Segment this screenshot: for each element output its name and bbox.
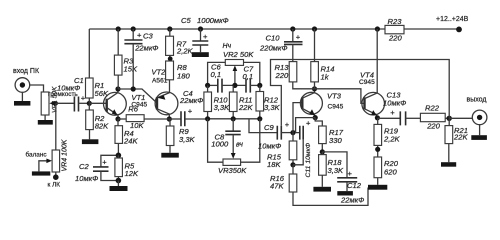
input jack connector: [15, 78, 30, 93]
wire top supply bus: [89, 28, 459, 30]
resistor R22 220: [420, 113, 445, 121]
svg-text:22K: 22K: [453, 133, 468, 142]
svg-text:VR350K: VR350K: [218, 166, 247, 175]
svg-text:15K: 15K: [124, 65, 138, 74]
wire VT1 collector to VT2 base: [118, 89, 157, 103]
svg-text:10мкФ: 10мкФ: [75, 174, 98, 183]
svg-text:+: +: [188, 107, 193, 116]
wire wiper node down to VR4: [55, 103, 57, 150]
ground below R21: [441, 162, 456, 167]
svg-text:C2: C2: [79, 162, 89, 171]
wire wiper node to C1: [56, 102, 74, 104]
svg-text:+12..+24В: +12..+24В: [436, 16, 469, 23]
svg-text:0,1: 0,1: [243, 72, 254, 81]
svg-text:+: +: [390, 108, 395, 117]
resistor R10 3,3K: [207, 85, 209, 92]
resistor R8 180: [166, 61, 174, 80]
resistor R3 15K: [117, 29, 119, 55]
node bus junction dots: [116, 26, 121, 31]
transistor VT1 C945: [104, 92, 127, 115]
ground below R2: [82, 139, 99, 144]
resistor R5 12K: [117, 155, 119, 158]
svg-text:10мкФ: 10мкФ: [383, 99, 406, 108]
svg-text:C9: C9: [264, 123, 274, 132]
svg-text:баланс: баланс: [26, 151, 48, 159]
wire VR4 wiper to ground: [39, 161, 48, 172]
capacitor C4 22uF: [169, 118, 181, 120]
svg-text:+: +: [137, 31, 142, 40]
svg-text:330: 330: [329, 136, 342, 145]
resistor R4 24K: [117, 119, 119, 126]
svg-text:22K: 22K: [238, 103, 253, 112]
wire C4 node run: [208, 118, 260, 120]
svg-text:+: +: [203, 32, 208, 41]
wire output node to jack: [449, 117, 472, 119]
svg-text:22мкФ: 22мкФ: [134, 44, 158, 53]
ground below R9: [161, 153, 179, 158]
svg-text:22мкФ: 22мкФ: [179, 96, 203, 105]
capacitor C3 22uF: [132, 29, 134, 40]
resistor R21 22K: [448, 118, 450, 125]
svg-text:10мкФ: 10мкФ: [258, 142, 281, 151]
node VR2 leg dots: [205, 83, 210, 88]
resistor R11 22K: [232, 85, 234, 92]
potentiometer VR4 100K balance: [52, 150, 60, 172]
svg-text:620: 620: [384, 168, 397, 177]
ground below R20: [368, 185, 387, 190]
resistor R9 3,3K: [169, 119, 171, 126]
resistor R15 18K: [292, 133, 294, 141]
node VR4 bottom to left channel: [55, 172, 57, 175]
svg-text:R6: R6: [128, 105, 138, 114]
wire C9 node to VT3 base: [293, 103, 302, 133]
transistor VT2 A561: [155, 92, 178, 115]
svg-text:R22: R22: [425, 104, 440, 113]
wire VT3 collector to VT4 base: [315, 89, 365, 104]
capacitor C8 1000: [232, 119, 234, 131]
resistor R23: [385, 25, 404, 33]
node VT2 collector: [167, 116, 172, 121]
resistor R19 2,2K: [377, 118, 379, 124]
resistor R16 47K: [292, 165, 294, 174]
wire jack to VR1: [30, 85, 44, 92]
svg-text:VT3: VT3: [327, 92, 342, 101]
capacitor C6 0,1: [208, 84, 218, 86]
svg-text:C5: C5: [181, 16, 191, 25]
ground below C5: [192, 52, 209, 57]
svg-text:2,2K: 2,2K: [383, 135, 401, 144]
svg-text:3,3K: 3,3K: [328, 166, 345, 175]
potentiometer VR3 50K: [223, 159, 241, 165]
svg-text:24K: 24K: [123, 137, 138, 146]
svg-text:1000мкФ: 1000мкФ: [197, 16, 229, 25]
output jack connector: [472, 110, 487, 125]
ground below VR1: [44, 115, 46, 120]
svg-text:220мкФ: 220мкФ: [259, 44, 288, 53]
ground below R5: [117, 181, 119, 187]
svg-text:+: +: [348, 169, 353, 178]
svg-text:1000: 1000: [211, 139, 229, 148]
svg-text:2,2K: 2,2K: [176, 47, 194, 56]
transistor VT3 C945: [300, 92, 322, 114]
potentiometer VR2 50K: [225, 60, 243, 66]
capacitor C2 10uF: [101, 155, 119, 167]
svg-text:+: +: [285, 120, 290, 129]
resistor R6 10K: [118, 118, 126, 120]
svg-text:47K: 47K: [270, 182, 284, 191]
resistor R20 620: [374, 157, 382, 178]
svg-text:12K: 12K: [125, 169, 139, 178]
svg-text:вч: вч: [236, 142, 243, 149]
svg-text:к ЛК: к ЛК: [48, 182, 61, 189]
resistor R17 330: [315, 118, 322, 126]
wire feedback from output to C9 node: [271, 60, 450, 126]
svg-text:18K: 18K: [267, 160, 281, 169]
svg-text:220: 220: [426, 122, 440, 131]
svg-text:+: +: [81, 94, 86, 103]
svg-text:C945: C945: [328, 104, 344, 111]
capacitor C11 10uF bootstrap: [296, 118, 316, 133]
svg-text:+: +: [296, 32, 301, 41]
svg-text:+: +: [306, 119, 311, 128]
node terminal +12..+24V: [456, 27, 462, 33]
resistor R18 3,3K: [321, 152, 323, 155]
svg-text:VT2: VT2: [151, 68, 166, 77]
svg-text:C11 10мкФ: C11 10мкФ: [305, 142, 312, 177]
capacitor C1 10uF: [74, 97, 78, 112]
resistor R13 220: [292, 44, 294, 61]
svg-text:C12: C12: [347, 181, 362, 190]
wire C1 to base node: [79, 102, 90, 104]
resistor R14 1k: [314, 29, 316, 62]
resistor R12 3,3K: [259, 85, 261, 91]
svg-text:3,3K: 3,3K: [214, 103, 231, 112]
ground below C12: [337, 191, 353, 195]
svg-text:22мкФ: 22мкФ: [340, 196, 364, 205]
capacitor C13 10uF: [377, 117, 400, 119]
svg-text:C945: C945: [359, 79, 375, 86]
transistor VT4 C945: [362, 92, 385, 115]
svg-text:R23: R23: [388, 17, 403, 26]
wire VR1 wiper: [52, 102, 56, 104]
resistor R7 2,2K: [169, 29, 171, 36]
svg-text:выход: выход: [467, 97, 487, 104]
svg-text:Нч: Нч: [223, 43, 232, 50]
svg-text:+: +: [102, 158, 107, 167]
svg-text:вход ПК: вход ПК: [13, 68, 40, 75]
svg-text:1k: 1k: [321, 73, 330, 82]
capacitor C10 220uF: [292, 29, 294, 42]
svg-text:3,3K: 3,3K: [179, 135, 196, 144]
wire R16 to ground rail: [293, 188, 368, 206]
svg-text:82K: 82K: [95, 122, 109, 131]
capacitor C7 0,1: [222, 84, 246, 86]
potentiometer VR1 50K: [41, 92, 49, 115]
ground below jack: [21, 92, 23, 101]
svg-text:громкость: громкость: [48, 91, 78, 98]
svg-text:220: 220: [388, 34, 402, 43]
svg-text:VR2 50K: VR2 50K: [223, 50, 254, 59]
resistor R2 82K: [88, 103, 90, 110]
svg-text:3,3K: 3,3K: [264, 103, 281, 112]
svg-text:VR4 100K: VR4 100K: [62, 139, 69, 171]
ground below output jack: [479, 125, 481, 136]
wire VR2 wiper: [234, 69, 236, 85]
capacitor C5 1000uF: [200, 29, 202, 41]
svg-text:220: 220: [275, 71, 289, 80]
svg-text:0,1: 0,1: [211, 70, 222, 79]
capacitor C9 10uF: [277, 126, 281, 140]
resistor R1 56K: [88, 29, 90, 78]
capacitor C12 22uF: [322, 152, 347, 178]
svg-text:C10: C10: [266, 34, 281, 43]
svg-text:C3: C3: [143, 32, 153, 41]
ground below R18: [313, 187, 331, 192]
svg-text:180: 180: [177, 72, 190, 81]
wire tone network to C9: [249, 119, 277, 133]
